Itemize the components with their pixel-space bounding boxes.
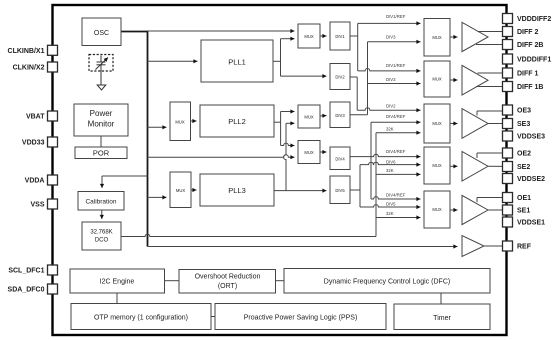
svg-text:OE2: OE2 [517,151,531,158]
svg-text:DIV5: DIV5 [386,202,396,207]
svg-text:(ORT): (ORT) [218,283,237,290]
svg-text:REF: REF [517,244,532,251]
svg-text:Power: Power [90,109,113,118]
svg-text:SCL_DFC1: SCL_DFC1 [8,268,44,275]
svg-text:MUX: MUX [432,77,442,82]
svg-text:SE3: SE3 [517,121,530,128]
svg-text:DIV1/REF: DIV1/REF [386,14,406,19]
svg-text:DIV4/REF: DIV4/REF [386,114,406,119]
svg-text:DIV2: DIV2 [386,103,396,108]
svg-text:PLL2: PLL2 [228,117,246,126]
svg-text:32K: 32K [386,211,394,216]
svg-text:DIV5: DIV5 [335,188,345,193]
svg-text:SE1: SE1 [517,208,530,215]
svg-text:MUX: MUX [432,163,442,168]
svg-text:32K: 32K [386,168,394,173]
svg-text:DIV2: DIV2 [335,75,345,80]
svg-text:VDD33: VDD33 [22,140,45,147]
svg-text:OTP memory (1 configuration): OTP memory (1 configuration) [94,315,188,322]
svg-text:POR: POR [93,149,110,158]
svg-text:VSS: VSS [30,202,44,209]
svg-text:DIV4/REF: DIV4/REF [386,192,406,197]
svg-text:DIFF 2: DIFF 2 [517,29,538,36]
svg-text:VDDDIFF2: VDDDIFF2 [517,16,551,23]
svg-text:Monitor: Monitor [88,120,115,129]
svg-text:MUX: MUX [175,119,185,124]
svg-text:DIV4/REF: DIV4/REF [386,149,406,154]
svg-text:SDA_DFC0: SDA_DFC0 [8,287,45,294]
svg-text:DIV3: DIV3 [386,34,396,39]
svg-text:MUX: MUX [304,150,314,155]
svg-text:VDDSE1: VDDSE1 [517,220,545,227]
svg-text:DIFF 1: DIFF 1 [517,71,538,78]
svg-text:OE3: OE3 [517,108,531,115]
svg-text:MUX: MUX [432,35,442,40]
svg-text:MUX: MUX [432,121,442,126]
svg-text:DIFF 2B: DIFF 2B [517,42,543,49]
svg-text:Timer: Timer [433,315,451,322]
svg-text:Overshoot Reduction: Overshoot Reduction [195,274,261,281]
svg-text:MUX: MUX [176,188,186,193]
svg-text:DIV1: DIV1 [335,34,345,39]
svg-text:VBAT: VBAT [26,114,45,121]
svg-text:OE1: OE1 [517,195,531,202]
svg-text:VDDDIFF1: VDDDIFF1 [517,57,551,64]
svg-text:DIV3: DIV3 [335,113,345,118]
svg-text:MUX: MUX [304,115,314,120]
svg-text:SE2: SE2 [517,164,530,171]
svg-text:DIV1/REF: DIV1/REF [386,63,406,68]
svg-text:Proactive Power Saving Logic (: Proactive Power Saving Logic (PPS) [244,315,358,322]
svg-text:32K: 32K [386,127,394,132]
svg-text:MUX: MUX [304,34,314,39]
svg-text:OSC: OSC [94,30,109,37]
svg-text:DIFF 1B: DIFF 1B [517,84,543,91]
svg-text:DIV4: DIV4 [335,157,345,162]
svg-text:DCO: DCO [95,238,109,244]
svg-text:32.768K: 32.768K [90,230,112,236]
svg-text:I2C Engine: I2C Engine [100,279,135,286]
svg-text:Dynamic Frequency Control Logi: Dynamic Frequency Control Logic (DFC) [324,279,450,286]
svg-text:Calibration: Calibration [85,199,116,206]
svg-text:VDDSE2: VDDSE2 [517,176,545,183]
svg-text:CLKINB/X1: CLKINB/X1 [8,48,45,55]
svg-text:VDDSE3: VDDSE3 [517,134,545,141]
svg-text:DIV6: DIV6 [386,159,396,164]
svg-text:MUX: MUX [432,207,442,212]
svg-text:PLL3: PLL3 [228,186,246,195]
svg-text:PLL1: PLL1 [228,57,246,66]
svg-text:CLKIN/X2: CLKIN/X2 [13,65,45,72]
svg-text:DIV3: DIV3 [386,77,396,82]
svg-text:VDDA: VDDA [25,178,45,185]
